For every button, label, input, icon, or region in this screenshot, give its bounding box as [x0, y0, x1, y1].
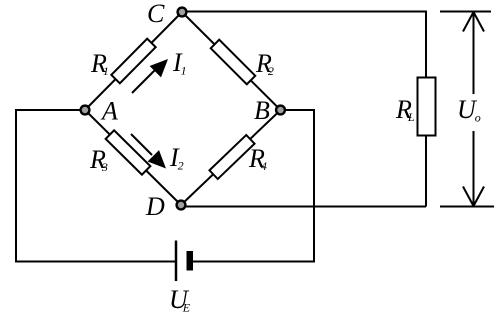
wire C to top-right corner	[182, 12, 426, 79]
wire D to right (to RL branch)	[181, 206, 426, 208]
wire D to B (bridge arm)	[181, 110, 281, 205]
Uo dimension line lower segment with down arrowhead	[463, 131, 484, 206]
current arrow I2	[131, 134, 166, 169]
svg-text:R3: R3	[89, 145, 108, 174]
wire C to B (bridge arm)	[182, 12, 281, 110]
svg-text:A: A	[100, 97, 118, 126]
wire A to left edge and down to battery	[16, 110, 176, 262]
Uo dimension line upper segment with up arrowhead	[463, 12, 484, 94]
resistor R3 body	[106, 130, 151, 174]
svg-text:UE: UE	[169, 285, 191, 315]
svg-text:D: D	[145, 192, 165, 221]
wire A to D (bridge arm)	[85, 110, 181, 205]
resistor R1 body	[111, 39, 155, 84]
svg-text:C: C	[147, 0, 165, 28]
resistor R2 body	[211, 40, 256, 85]
current arrow I1	[132, 59, 168, 93]
svg-text:R4: R4	[248, 144, 267, 173]
svg-text:B: B	[254, 96, 270, 125]
resistor R4 body	[209, 135, 254, 179]
Uo bottom tick	[440, 206, 494, 208]
svg-text:R1: R1	[90, 49, 109, 78]
node C	[178, 8, 187, 17]
wire C to A (bridge arm)	[85, 12, 182, 110]
wire RL bottom to D-line	[425, 135, 427, 207]
battery UE long plate	[175, 241, 178, 282]
node B	[276, 106, 285, 115]
node D	[177, 201, 186, 210]
node A	[81, 106, 90, 115]
svg-text:R2: R2	[255, 49, 274, 78]
Uo top tick	[440, 11, 491, 13]
battery UE short thick plate	[187, 251, 194, 271]
resistor RL body	[418, 78, 436, 136]
wire B right and down to battery	[193, 110, 314, 262]
